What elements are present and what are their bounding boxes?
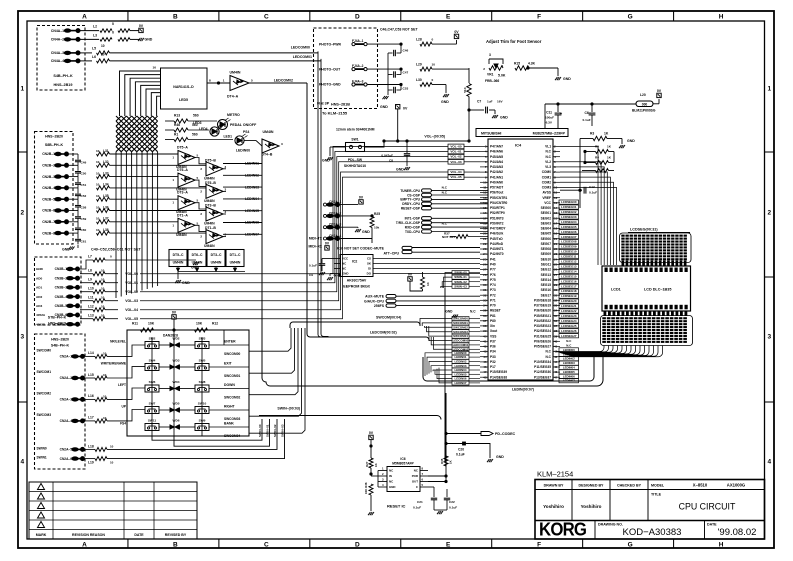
- svg-text:P15/SEG39: P15/SEG39: [490, 370, 507, 374]
- svg-text:RESET–DSP: RESET–DSP: [401, 207, 421, 211]
- svg-text:P56/Tout: P56/Tout: [490, 191, 504, 195]
- svg-text:CN2B–5: CN2B–5: [42, 197, 55, 201]
- svg-text:N.C: N.C: [442, 191, 448, 195]
- svg-text:VL1: VL1: [545, 145, 551, 149]
- svg-text:GND: GND: [380, 105, 388, 109]
- svg-text:R13: R13: [174, 114, 180, 118]
- svg-text:P32: P32: [490, 360, 496, 364]
- svg-text:DT6–A: DT6–A: [177, 168, 188, 172]
- svg-text:LCDSEG(00:31): LCDSEG(00:31): [630, 228, 658, 232]
- svg-text:MODEL: MODEL: [651, 484, 665, 488]
- svg-text:SEG13: SEG13: [541, 273, 552, 277]
- svg-text:L29: L29: [416, 63, 422, 67]
- svg-text:Xin: Xin: [490, 324, 495, 328]
- svg-text:LCD DLC–1B35: LCD DLC–1B35: [644, 288, 671, 292]
- svg-text:P30/SEG18: P30/SEG18: [534, 298, 551, 302]
- svg-text:GND: GND: [36, 267, 44, 271]
- svg-text:0V: 0V: [454, 30, 459, 34]
- svg-text:2: 2: [483, 67, 485, 71]
- svg-text:GND: GND: [342, 272, 348, 276]
- KORG logo: [539, 519, 586, 540]
- svg-text:LCDSEG23: LCDSEG23: [561, 314, 577, 318]
- svg-text:DOWN: DOWN: [224, 383, 235, 387]
- wire right-side verticals: [579, 139, 581, 209]
- svg-text:P37/SEG19: P37/SEG19: [534, 304, 551, 308]
- svg-text:0: 0: [110, 254, 112, 258]
- svg-text:CN2A–1: CN2A–1: [60, 355, 73, 359]
- wire matrix verticals: [151, 337, 153, 436]
- svg-text:PD–CODEC: PD–CODEC: [495, 432, 516, 436]
- svg-text:VREF: VREF: [542, 196, 551, 200]
- svg-text:WRITE/RENAME: WRITE/RENAME: [101, 362, 127, 366]
- svg-text:LED5: LED5: [179, 98, 188, 102]
- IC LED5 NAR141S-D: [161, 68, 208, 109]
- svg-text:NAR141S–D: NAR141S–D: [173, 85, 194, 89]
- svg-text:SEG02: SEG02: [541, 216, 552, 220]
- svg-text:EMPTY–CPU: EMPTY–CPU: [400, 198, 420, 202]
- svg-text:VCC: VCC: [342, 257, 349, 261]
- svg-text:LEDIN02: LEDIN02: [563, 357, 575, 361]
- svg-text:GND: GND: [396, 168, 404, 172]
- svg-text:SEG07: SEG07: [541, 242, 552, 246]
- svg-text:CN3B–6: CN3B–6: [55, 313, 68, 317]
- ground (L3 row): [138, 38, 140, 41]
- svg-text:R15: R15: [514, 62, 520, 66]
- svg-text:P35/SEG21: P35/SEG21: [534, 314, 551, 318]
- svg-text:SEG08: SEG08: [541, 247, 552, 251]
- svg-text:LCDSEG13: LCDSEG13: [561, 264, 577, 268]
- LCD lower pin teeth: [604, 312, 688, 317]
- svg-text:VOL–04: VOL–04: [125, 308, 138, 312]
- svg-text:3: 3: [767, 334, 771, 341]
- svg-text:P57/ADT: P57/ADT: [490, 186, 503, 190]
- svg-text:CS: CS: [367, 257, 371, 261]
- svg-text:P46/AN6: P46/AN6: [490, 150, 503, 154]
- svg-text:P40: P40: [490, 263, 496, 267]
- svg-text:S4B–PH–K: S4B–PH–K: [53, 74, 73, 78]
- wire C20 to gnd: [466, 444, 491, 459]
- svg-text:0V: 0V: [139, 24, 144, 28]
- svg-text:'99.08.02: '99.08.02: [718, 527, 757, 538]
- svg-text:P10/SEG34: P10/SEG34: [534, 360, 551, 364]
- capacitor C46: [400, 43, 402, 45]
- svg-text:DT4–A: DT4–A: [227, 95, 239, 99]
- svg-text:P17: P17: [490, 365, 496, 369]
- svg-text:P70: P70: [490, 304, 496, 308]
- svg-text:UM4IN: UM4IN: [176, 233, 187, 237]
- svg-text:CN2A–3: CN2A–3: [60, 398, 73, 402]
- svg-text:LCDSEG24: LCDSEG24: [561, 319, 577, 323]
- svg-text:B: B: [173, 542, 178, 549]
- svg-text:Adjust Trim for Foot Senso: Adjust Trim for Foot Sensor: [486, 39, 542, 44]
- svg-text:C: C: [264, 542, 269, 549]
- svg-text:VOL–(00:05): VOL–(00:05): [424, 134, 445, 138]
- connector CN2A dashed box HNS-2B20 S4B-PH-K: [35, 334, 86, 469]
- svg-text:KOD−A30383: KOD−A30383: [623, 527, 682, 538]
- svg-text:INT1–DSP: INT1–DSP: [405, 217, 421, 221]
- svg-text:E: E: [446, 542, 451, 549]
- svg-text:51K: 51K: [463, 86, 467, 92]
- wire LEDCOM00/01 join bus: [318, 51, 329, 337]
- svg-text:CN4A–2: CN4A–2: [51, 38, 64, 42]
- capacitor C53 row L30: [400, 83, 402, 85]
- svg-text:DESIGNED BY: DESIGNED BY: [579, 484, 605, 488]
- svg-text:VL3: VL3: [545, 165, 551, 169]
- svg-text:4.3K: 4.3K: [528, 62, 536, 66]
- svg-text:P42/AN2: P42/AN2: [490, 170, 503, 174]
- svg-text:TUNER–CPU: TUNER–CPU: [400, 189, 420, 193]
- svg-text:2: 2: [20, 210, 24, 217]
- svg-text:TXD–CPU: TXD–CPU: [405, 230, 421, 234]
- svg-text:LEDCOM00: LEDCOM00: [453, 339, 469, 343]
- wire foot sensor to IC4: [468, 110, 470, 141]
- svg-text:VOL–03: VOL–03: [125, 299, 138, 303]
- svg-text:SW1: SW1: [351, 138, 358, 142]
- svg-text:LEDIN07: LEDIN07: [455, 381, 467, 385]
- IC EEPROM IC2 AK93C75AV: [340, 255, 373, 277]
- svg-text:P36: P36: [490, 345, 496, 349]
- svg-text:0.1uF: 0.1uF: [456, 453, 465, 457]
- svg-text:AVSS: AVSS: [542, 191, 551, 195]
- svg-text:SEG15: SEG15: [541, 283, 552, 287]
- svg-text:LCDSEG04: LCDSEG04: [561, 220, 577, 224]
- svg-text:0V: 0V: [408, 273, 413, 277]
- svg-text:FS4: FS4: [120, 422, 126, 426]
- svg-text:G/AUX–CPU: G/AUX–CPU: [364, 299, 384, 303]
- svg-text:R46: R46: [174, 123, 180, 127]
- svg-text:P45/AN5: P45/AN5: [490, 155, 503, 159]
- svg-text:ATT–CPU: ATT–CPU: [383, 251, 399, 255]
- svg-text:LCDSEG00: LCDSEG00: [561, 200, 577, 204]
- svg-text:EEPROM 8Kbit: EEPROM 8Kbit: [343, 285, 370, 289]
- svg-text:P80: P80: [490, 319, 496, 323]
- svg-text:C8: C8: [389, 159, 393, 163]
- svg-text:SWIN1: SWIN1: [37, 456, 47, 460]
- svg-text:SWIN–03: SWIN–03: [281, 424, 285, 437]
- svg-text:B: B: [173, 14, 178, 21]
- svg-text:10K: 10K: [196, 322, 203, 326]
- svg-text:PDL–SW: PDL–SW: [348, 158, 363, 162]
- wire LEDIN bus vertical: [261, 152, 263, 378]
- svg-text:0.1uF: 0.1uF: [413, 506, 421, 510]
- svg-text:IN: IN: [389, 474, 392, 478]
- svg-text:C9: C9: [309, 273, 313, 277]
- resistor 51K vertical: [468, 68, 470, 83]
- svg-text:H: H: [719, 14, 724, 21]
- capacitors C49-C52 C58-C61 column: [69, 153, 78, 155]
- ground (C8): [404, 167, 406, 170]
- svg-text:BANK: BANK: [224, 422, 234, 426]
- svg-text:LEDIN00: LEDIN00: [236, 149, 250, 153]
- ground (CN2B caps): [69, 247, 71, 250]
- svg-text:P72: P72: [490, 293, 496, 297]
- svg-text:L16: L16: [88, 394, 94, 398]
- svg-text:100uF: 100uF: [545, 116, 554, 120]
- svg-text:CN3B–3: CN3B–3: [55, 286, 68, 290]
- svg-text:P42/INT0: P42/INT0: [490, 252, 504, 256]
- svg-text:C20: C20: [458, 448, 464, 452]
- svg-text:RESET: RESET: [490, 309, 501, 313]
- svg-text:1: 1: [502, 64, 504, 68]
- svg-text:VOL–05: VOL–05: [450, 175, 462, 179]
- revision table: [29, 482, 197, 539]
- svg-text:HNS–2B20: HNS–2B20: [45, 135, 63, 139]
- svg-text:R25: R25: [374, 212, 380, 216]
- svg-text:SEG00: SEG00: [541, 206, 552, 210]
- svg-text:LCDSEG17: LCDSEG17: [561, 284, 577, 288]
- net labels SWCOM/LEDCOM/LEDIN at IC4: [452, 271, 480, 386]
- svg-text:C53: C53: [403, 87, 409, 91]
- svg-text:P75: P75: [490, 278, 496, 282]
- svg-text:BLM21P600SG: BLM21P600SG: [632, 109, 656, 113]
- svg-text:CN2B–6: CN2B–6: [42, 209, 55, 213]
- svg-text:L12: L12: [88, 305, 94, 309]
- svg-text:0: 0: [112, 22, 114, 26]
- svg-text:DT3–C: DT3–C: [211, 253, 222, 257]
- svg-text:SEG01: SEG01: [541, 211, 552, 215]
- svg-text:KORG: KORG: [539, 519, 586, 540]
- svg-text:R27: R27: [365, 461, 369, 467]
- svg-text:6.3V: 6.3V: [546, 121, 553, 125]
- svg-text:H: H: [719, 542, 724, 549]
- connector CN4A dashed box S4B-PH-K HNS-2B19: [37, 26, 85, 91]
- svg-text:CN3B–7: CN3B–7: [55, 322, 68, 326]
- svg-text:P45/TxD: P45/TxD: [490, 237, 503, 241]
- svg-text:P40/AN0: P40/AN0: [490, 180, 503, 184]
- svg-text:HNS–281B: HNS–281B: [331, 103, 350, 107]
- svg-text:P77: P77: [490, 268, 496, 272]
- svg-text:P76: P76: [490, 273, 496, 277]
- svg-text:CN4A–3: CN4A–3: [51, 51, 64, 55]
- svg-text:PHOTO–PWR: PHOTO–PWR: [319, 42, 342, 46]
- svg-text:AD1: AD1: [36, 286, 42, 290]
- svg-text:COM0: COM0: [542, 170, 552, 174]
- svg-text:LEDCOM(00:02): LEDCOM(00:02): [370, 330, 397, 334]
- ground (CN3A-3): [340, 226, 358, 228]
- svg-text:R35: R35: [440, 458, 444, 464]
- svg-text:SWCOM00: SWCOM00: [453, 317, 468, 321]
- svg-text:ENTER: ENTER: [224, 340, 236, 344]
- svg-text:RESET IC: RESET IC: [387, 504, 406, 509]
- svg-text:L2: L2: [93, 25, 97, 29]
- svg-text:10: 10: [101, 44, 105, 48]
- bus crosshatch bundle: [116, 116, 158, 152]
- flag CODEC-MUTE ATT-CPU: [402, 246, 412, 249]
- svg-text:P33/SEG23: P33/SEG23: [534, 324, 551, 328]
- svg-text:L5: L5: [92, 47, 96, 51]
- svg-text:SWIN–02: SWIN–02: [273, 424, 277, 437]
- wire bus verticals below crosshatch: [115, 152, 117, 298]
- svg-text:DO: DO: [367, 272, 372, 276]
- svg-text:R26 NOT SET CODEC–MUTE: R26 NOT SET CODEC–MUTE: [337, 246, 385, 250]
- svg-text:R11: R11: [132, 322, 138, 326]
- svg-text:C46,C47,C53 NOT SET: C46,C47,C53 NOT SET: [380, 28, 419, 32]
- svg-text:S4B–PH–K: S4B–PH–K: [51, 344, 70, 348]
- wire CN4A rows: [80, 30, 99, 32]
- svg-text:LEDCOM01: LEDCOM01: [453, 343, 469, 347]
- svg-text:4: 4: [767, 459, 771, 466]
- svg-text:0.1uF: 0.1uF: [589, 191, 597, 195]
- svg-text:2: 2: [767, 210, 771, 217]
- svg-text:DI: DI: [368, 267, 371, 271]
- svg-text:P43/AN3: P43/AN3: [490, 165, 503, 169]
- svg-text:0: 0: [432, 78, 434, 82]
- wire vertical to PD-CODEC: [445, 393, 447, 466]
- svg-text:M5M8057AFP: M5M8057AFP: [392, 461, 414, 465]
- wire spare box commons: [178, 271, 245, 273]
- svg-text:P50/INT2: P50/INT2: [490, 222, 504, 226]
- svg-text:DATE: DATE: [134, 533, 144, 537]
- svg-text:P73: P73: [490, 288, 496, 292]
- svg-text:GND: GND: [496, 455, 504, 459]
- svg-text:SWCOM01: SWCOM01: [453, 321, 468, 325]
- svg-text:P36/SEG20: P36/SEG20: [534, 309, 551, 313]
- svg-text:R3: R3: [590, 132, 594, 136]
- svg-text:L10: L10: [88, 287, 94, 291]
- svg-text:0V: 0V: [325, 242, 330, 246]
- flag PD-CODEC: [481, 432, 493, 436]
- svg-text:LCD1: LCD1: [611, 288, 621, 292]
- svg-text:3: 3: [489, 53, 491, 57]
- svg-text:CHECKED BY: CHECKED BY: [617, 484, 642, 488]
- svg-text:VOL–01: VOL–01: [125, 281, 138, 285]
- svg-text:LEDIN(00:07): LEDIN(00:07): [512, 388, 534, 392]
- svg-text:C60: C60: [81, 228, 87, 232]
- svg-text:R12: R12: [212, 322, 218, 326]
- svg-text:LCDSEG05: LCDSEG05: [561, 225, 577, 229]
- svg-text:LED1: LED1: [223, 134, 232, 138]
- ground (photo cap rail): [383, 96, 385, 99]
- svg-text:0V: 0V: [657, 89, 662, 93]
- svg-text:SEG14: SEG14: [541, 278, 552, 282]
- svg-text:AD0: AD0: [36, 276, 42, 280]
- resistor R35 1K vertical: [444, 456, 448, 466]
- svg-text:SWIN–03: SWIN–03: [454, 284, 467, 288]
- svg-text:LEDIN05: LEDIN05: [563, 370, 575, 374]
- svg-text:C12: C12: [589, 185, 595, 189]
- wire LEDIN staircase to labels: [425, 353, 452, 376]
- svg-text:VCC: VCC: [544, 201, 551, 205]
- connector FJ4A dashed box Flat 3P HNS-281B: [314, 28, 378, 109]
- svg-text:4052B: 4052B: [36, 322, 46, 326]
- svg-text:POR: POR: [412, 474, 419, 478]
- svg-text:GND: GND: [334, 274, 342, 278]
- wire IC6 right connections: [428, 475, 446, 477]
- svg-text:0V: 0V: [369, 431, 374, 435]
- svg-text:VOL–00: VOL–00: [450, 144, 462, 148]
- svg-text:P05/SEG27: P05/SEG27: [534, 345, 551, 349]
- svg-text:P14/SEG38: P14/SEG38: [490, 375, 507, 379]
- svg-text:UM4IN: UM4IN: [204, 176, 215, 180]
- ground (C21 C22): [437, 511, 439, 514]
- wire CN3A-4: [340, 238, 372, 240]
- column letters top: [82, 11, 724, 21]
- svg-text:SWCOM01: SWCOM01: [224, 374, 240, 378]
- svg-text:C58: C58: [81, 206, 87, 210]
- svg-text:GND: GND: [627, 139, 635, 143]
- IC4 left pin rows: [480, 145, 508, 380]
- svg-text:C59: C59: [81, 217, 87, 221]
- svg-text:LEDIN06: LEDIN06: [563, 374, 575, 378]
- svg-text:SWCOM02: SWCOM02: [453, 325, 468, 329]
- svg-text:LEDCOM01: LEDCOM01: [293, 55, 312, 59]
- ground (C7): [492, 115, 494, 118]
- svg-text:VOL–04: VOL–04: [450, 170, 462, 174]
- svg-text:P43/INT1: P43/INT1: [490, 247, 504, 251]
- svg-text:SEG10: SEG10: [541, 257, 552, 261]
- svg-text:CS–DSP: CS–DSP: [407, 193, 421, 197]
- svg-text:UM4IN: UM4IN: [230, 71, 241, 75]
- svg-text:To KLM–2155: To KLM–2155: [322, 111, 348, 116]
- svg-text:GND: GND: [322, 159, 330, 163]
- svg-text:P52/RTP0: P52/RTP0: [490, 211, 505, 215]
- resistor VL row 4: [596, 169, 609, 173]
- wire DT3 outputs: [195, 203, 206, 209]
- wire DT6 outputs: [195, 180, 206, 186]
- wire LEDCOM02: [249, 82, 307, 84]
- svg-text:SWCOM04: SWCOM04: [453, 334, 468, 338]
- svg-text:DT5–C: DT5–C: [173, 253, 184, 257]
- svg-text:L6: L6: [92, 55, 96, 59]
- svg-text:CN3B–2: CN3B–2: [55, 276, 68, 280]
- row numbers left and right: [18, 86, 774, 466]
- svg-text:CPU CIRCUIT: CPU CIRCUIT: [679, 502, 736, 512]
- svg-text:VOL–02: VOL–02: [125, 290, 138, 294]
- svg-text:C49: C49: [81, 160, 87, 164]
- LCD module LCD1 DLC-1B35: [602, 266, 691, 311]
- svg-text:0V: 0V: [359, 196, 364, 200]
- svg-text:SEG06: SEG06: [541, 237, 552, 241]
- svg-text:4: 4: [20, 459, 24, 466]
- svg-text:000: 000: [642, 102, 648, 106]
- svg-text:GND: GND: [563, 77, 571, 81]
- svg-text:P47/AN7: P47/AN7: [490, 145, 503, 149]
- svg-text:P13/SEG37: P13/SEG37: [534, 375, 551, 379]
- svg-text:5: 5: [251, 79, 253, 83]
- svg-text:CN4A–1: CN4A–1: [51, 29, 64, 33]
- svg-text:AUX–MUTE: AUX–MUTE: [365, 295, 385, 299]
- LCD upper label comb: [620, 233, 692, 263]
- svg-text:L9: L9: [88, 278, 92, 282]
- svg-text:LEDIN07: LEDIN07: [563, 379, 575, 383]
- svg-text:SEG09: SEG09: [541, 252, 552, 256]
- svg-text:3: 3: [20, 334, 24, 341]
- svg-text:GND: GND: [191, 266, 199, 270]
- svg-text:VOL–02: VOL–02: [450, 155, 462, 159]
- svg-text:10K R36: 10K R36: [364, 482, 368, 494]
- resistor R27 vertical: [369, 458, 373, 468]
- svg-text:AK93C75AV: AK93C75AV: [347, 279, 367, 283]
- IC4 right pin rows: [534, 145, 560, 380]
- wire SWCOM exits to bus: [249, 328, 291, 351]
- svg-text:P44/RxD: P44/RxD: [490, 242, 504, 246]
- svg-text:SKHHDTA010: SKHHDTA010: [344, 164, 366, 168]
- svg-text:0: 0: [112, 31, 114, 35]
- svg-text:N.C: N.C: [545, 155, 551, 159]
- svg-text:COM3: COM3: [542, 186, 552, 190]
- svg-text:10: 10: [432, 63, 436, 67]
- svg-text:NR/LEVEL: NR/LEVEL: [110, 340, 126, 344]
- svg-text:256FS: 256FS: [374, 304, 385, 308]
- svg-text:CN2A–2: CN2A–2: [60, 376, 73, 380]
- svg-text:CN2B–8: CN2B–8: [42, 231, 55, 235]
- wire LEDCOM00: [110, 52, 319, 54]
- wire vertical x445 SWIN taps: [444, 288, 446, 461]
- svg-text:SEG04: SEG04: [541, 227, 552, 231]
- svg-text:Flat 3P: Flat 3P: [317, 102, 330, 106]
- svg-text:N.C: N.C: [442, 186, 448, 190]
- svg-text:L14: L14: [88, 351, 94, 355]
